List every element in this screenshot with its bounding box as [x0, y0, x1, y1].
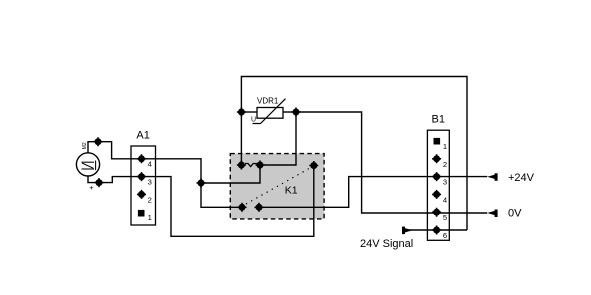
- svg-text:2: 2: [148, 195, 152, 204]
- svg-text:+24V: +24V: [508, 172, 535, 184]
- svg-text:B1: B1: [432, 114, 445, 126]
- svg-text:24V Signal: 24V Signal: [360, 238, 413, 250]
- svg-text:0V: 0V: [508, 208, 522, 220]
- svg-text:VDR1: VDR1: [257, 97, 279, 106]
- svg-text:2: 2: [443, 160, 447, 169]
- svg-text:3: 3: [148, 178, 152, 187]
- svg-text:5: 5: [443, 213, 447, 222]
- svg-text:4: 4: [443, 195, 447, 204]
- svg-text:3: 3: [443, 178, 447, 187]
- svg-text:U: U: [251, 117, 256, 124]
- svg-text:M2: M2: [82, 142, 88, 149]
- svg-text:4: 4: [148, 160, 152, 169]
- svg-text:6: 6: [443, 231, 447, 240]
- svg-text:K1: K1: [285, 184, 298, 196]
- svg-text:A1: A1: [136, 130, 149, 142]
- svg-text:+: +: [89, 183, 94, 192]
- svg-text:1: 1: [148, 213, 152, 222]
- svg-text:1: 1: [443, 142, 447, 151]
